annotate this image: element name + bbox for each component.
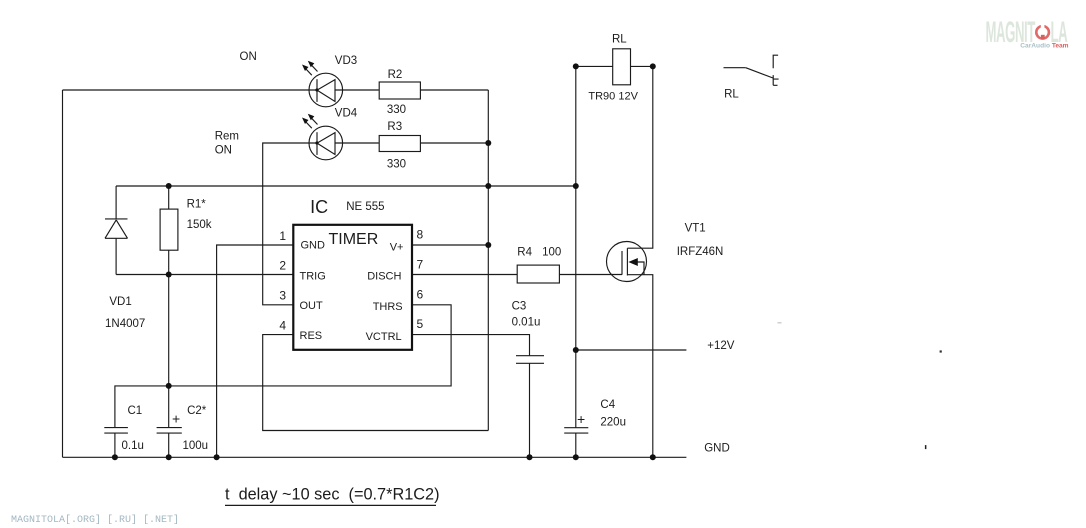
svg-text:ON: ON (215, 144, 232, 156)
svg-text:100u: 100u (183, 440, 209, 452)
svg-text:VT1: VT1 (685, 222, 706, 234)
op-amp U1: 555 timer IC box (293, 225, 412, 350)
svg-text:3: 3 (279, 289, 286, 303)
wire: VD1 bottom lead (115, 239, 117, 275)
diode VD1 (105, 219, 128, 238)
svg-text:220u: 220u (600, 417, 626, 429)
svg-text:GND: GND (704, 443, 730, 455)
svg-text:+: + (172, 411, 180, 427)
svg-text:GND: GND (301, 240, 326, 252)
wire: VD1 top lead (115, 186, 117, 219)
wire: OUT riser to VD4 row (263, 143, 317, 305)
wire: RES loop under IC (263, 335, 489, 431)
svg-text:R2: R2 (388, 69, 403, 81)
svg-text:TR90 12V: TR90 12V (588, 91, 638, 103)
svg-text:2: 2 (279, 259, 286, 273)
svg-text:C3: C3 (512, 301, 527, 313)
svg-text:100: 100 (542, 246, 561, 258)
svg-text:C1: C1 (128, 405, 143, 417)
speck artifacts (925, 445, 927, 449)
svg-text:VCTRL: VCTRL (366, 331, 402, 343)
svg-text:RL: RL (724, 88, 739, 100)
svg-text:330: 330 (387, 104, 406, 116)
wire: VD3 to R2 (335, 89, 379, 91)
relay coil RL (613, 49, 631, 85)
wire: R4 to gate (559, 274, 622, 276)
svg-text:VD4: VD4 (335, 108, 358, 120)
capacitor C4 (564, 411, 588, 433)
wire: C1 bottom lead (114, 433, 116, 457)
svg-text:R4: R4 (517, 246, 532, 258)
svg-text:+: + (577, 411, 585, 427)
LED VD3 (302, 61, 343, 107)
wire: R2 to right drop (420, 89, 488, 91)
svg-text:7: 7 (417, 257, 424, 271)
wire: C2 bottom lead (168, 433, 170, 457)
svg-text:5: 5 (417, 317, 424, 331)
capacitor C3 (516, 356, 544, 364)
wire: DISCH pin7 to R4 (412, 274, 517, 276)
svg-text:IC: IC (310, 197, 328, 217)
svg-text:0.01u: 0.01u (512, 317, 541, 329)
transistor Q1: MOSFET VT1 (607, 242, 647, 282)
LED VD4 (302, 114, 343, 160)
svg-text:330: 330 (387, 159, 406, 171)
svg-text:+12V: +12V (707, 340, 735, 352)
capacitor C1 (104, 428, 128, 434)
wire: drain riser (627, 66, 652, 248)
wire: relay coil left (576, 65, 613, 67)
resistor R1 (160, 209, 178, 250)
svg-text:MAGNITOLA[.ORG] [.RU] [.NET]: MAGNITOLA[.ORG] [.RU] [.NET] (11, 514, 179, 526)
svg-text:NE 555: NE 555 (346, 201, 384, 213)
svg-text:R3: R3 (387, 121, 402, 133)
svg-text:150k: 150k (187, 219, 212, 231)
svg-text:6: 6 (417, 287, 424, 301)
wire: V+ pin8 (412, 244, 488, 246)
svg-text:C4: C4 (600, 399, 615, 411)
svg-text:0.1u: 0.1u (122, 440, 144, 452)
wire: +12V rail vertical (575, 66, 577, 427)
resistor R4 (517, 265, 559, 283)
wire: relay coil right (631, 65, 653, 67)
wire: supply crossbar y=186 (116, 185, 576, 187)
svg-text:ON: ON (240, 51, 257, 63)
svg-text:1N4007: 1N4007 (105, 318, 145, 330)
svg-text:RES: RES (300, 330, 323, 342)
wire: VCTRL pin5 to C3 (412, 335, 530, 356)
svg-text:Rem: Rem (215, 131, 239, 143)
svg-text:OUT: OUT (300, 300, 324, 312)
svg-text:VD3: VD3 (335, 55, 357, 67)
relay contact RL (switch) (724, 55, 779, 85)
resistor R3 (379, 136, 420, 152)
svg-text:TIMER: TIMER (329, 231, 379, 248)
svg-text:VD1: VD1 (109, 296, 131, 308)
wire: R1 bottom lead to C2 (168, 250, 170, 427)
svg-text:RL: RL (612, 34, 627, 46)
junction dots (485, 140, 491, 146)
wire: THRS loop to C1/C2 node (115, 305, 451, 428)
svg-text:C2*: C2* (187, 405, 207, 417)
wire: source drop (627, 275, 652, 458)
wire: GND pin1 down (217, 245, 294, 457)
svg-text:1: 1 (279, 229, 286, 243)
svg-text:DISCH: DISCH (367, 271, 401, 283)
wire: left rail (62, 90, 64, 457)
svg-text:t delay ~10 sec (=0.7*R1C2): t delay ~10 sec (=0.7*R1C2) (225, 486, 440, 504)
svg-text:8: 8 (417, 227, 424, 241)
wire: V+ vertical rail x=488 (487, 90, 489, 431)
wire: C3 bottom lead (529, 363, 531, 457)
wire: VD4 to R3 (335, 142, 379, 144)
wire: R1 top lead (168, 186, 170, 209)
svg-text:R1*: R1* (187, 199, 207, 211)
wire: bottom ground rail (63, 456, 687, 458)
wire: top row to VD3 (63, 89, 318, 91)
svg-text:TRIG: TRIG (300, 271, 326, 283)
svg-text:4: 4 (279, 318, 286, 332)
wire: +12V stub (576, 349, 687, 351)
svg-text:V+: V+ (390, 242, 404, 254)
wire: R3 to rail (420, 142, 488, 144)
wire: TRIG wire y=274.5 (116, 274, 293, 276)
svg-text:THRS: THRS (373, 301, 403, 313)
svg-text:IRFZ46N: IRFZ46N (677, 246, 724, 258)
wire: C4 bottom lead (575, 433, 577, 457)
svg-text:CarAudio Team: CarAudio Team (1020, 43, 1068, 50)
capacitor C2 (157, 411, 182, 434)
logo MAGNITOLA top right (986, 15, 1069, 50)
resistor R2 (379, 82, 420, 99)
